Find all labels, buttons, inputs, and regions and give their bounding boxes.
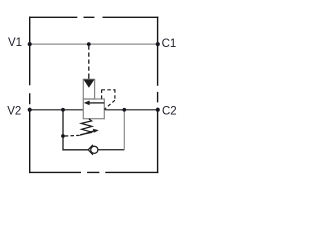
flow arrow inside valve (points left) xyxy=(84,101,105,106)
wire right riser (check valve up to C2 line, gray) xyxy=(123,110,125,150)
pilot line (dashed) from port-1 line down to pilot piston xyxy=(88,46,90,80)
node V1 xyxy=(28,42,32,46)
wire V1 to C1 (gray port line) xyxy=(30,43,157,45)
node drain junction xyxy=(61,134,65,138)
node V2 xyxy=(28,108,32,112)
pilot piston box xyxy=(83,79,94,99)
svg-text:C2: C2 xyxy=(162,106,177,118)
node left branch xyxy=(61,108,65,112)
wire check valve to right riser xyxy=(98,149,124,151)
valve body (main box) xyxy=(83,99,104,119)
check valve (ball and seat) xyxy=(88,145,98,155)
node C1 xyxy=(156,42,160,46)
envelope boundary (long-dash border) xyxy=(30,17,158,172)
svg-text:V1: V1 xyxy=(8,37,22,49)
wire V2 to valve inlet xyxy=(30,109,83,111)
spring (adjustable) under valve xyxy=(80,119,92,135)
node C2 xyxy=(156,108,160,112)
wire left branch riser (V2 line down to check valve) xyxy=(63,110,88,150)
node pilot tap xyxy=(87,42,91,46)
internal pilot (dashed loop from outlet to valve top) xyxy=(102,89,116,109)
drain line (dashed) from spring to left branch xyxy=(65,134,80,137)
node right branch xyxy=(122,108,126,112)
pilot arrow (solid down triangle) xyxy=(84,80,95,88)
adjustment arrow through spring xyxy=(80,129,99,135)
wire valve outlet to C2 xyxy=(104,109,157,111)
svg-text:V2: V2 xyxy=(7,105,21,117)
svg-text:C1: C1 xyxy=(162,38,177,50)
